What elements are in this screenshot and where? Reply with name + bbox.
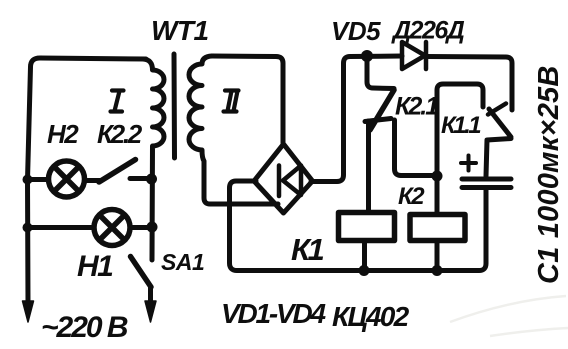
diode VD5 bbox=[402, 42, 425, 69]
bridge diode symbol bbox=[277, 166, 282, 197]
lamp H1 bbox=[94, 210, 130, 246]
contact K2.1 fixed lead bbox=[367, 61, 394, 89]
svg-text:WT1: WT1 bbox=[151, 15, 209, 46]
svg-text:~220 В: ~220 В bbox=[41, 311, 128, 344]
wire: K2.1 right branch to dot bbox=[395, 120, 438, 176]
junction dot K2-rail bbox=[432, 265, 443, 276]
wire: VD5 cathode to K1.1 fixed bbox=[426, 57, 512, 111]
wire: H1 row left segment bbox=[28, 225, 93, 230]
junction dot H1-rail bbox=[23, 223, 33, 233]
wire: left rail and top wire to primary bbox=[28, 58, 147, 303]
svg-text:К2.2: К2.2 bbox=[97, 119, 143, 149]
wire: bridge right corner up to VD5 junction bbox=[311, 56, 402, 182]
capacitor plus sign bbox=[461, 156, 476, 171]
svg-text:К1: К1 bbox=[291, 232, 324, 267]
lamp H2 bbox=[49, 161, 85, 197]
capacitor C1 plates bbox=[462, 179, 511, 188]
svg-text:КЦ402: КЦ402 bbox=[332, 301, 410, 332]
contact K2.1 bar bbox=[365, 119, 391, 122]
label winding II (roman numeral) bbox=[224, 91, 239, 112]
svg-text:Н1: Н1 bbox=[77, 250, 113, 283]
switch SA1 blade bbox=[131, 257, 152, 288]
junction dot H1-stem bbox=[147, 222, 158, 233]
wire: bridge left corner to bottom rail and rail to C1 bottom bbox=[230, 181, 487, 271]
svg-text:К2.1: К2.1 bbox=[395, 93, 438, 121]
wire: H2 row left segment bbox=[28, 177, 48, 182]
junction dot K1-rail bbox=[359, 265, 370, 276]
svg-text:Н2: Н2 bbox=[47, 119, 79, 149]
faint scan smudge bottom right bbox=[450, 296, 568, 336]
mains arrow left bbox=[23, 301, 34, 322]
contact K1.1 tick bbox=[488, 104, 506, 115]
junction dot K2.2-right bbox=[146, 174, 157, 185]
svg-text:SA1: SA1 bbox=[161, 249, 204, 275]
relay coil K2 bbox=[410, 215, 465, 241]
svg-text:К2: К2 bbox=[398, 183, 425, 210]
mains arrow right bbox=[145, 301, 156, 322]
wire: H1 lamp to stem bbox=[132, 225, 152, 230]
relay coil K1 bbox=[339, 213, 395, 241]
wire: H2 lamp to contact bbox=[85, 178, 101, 183]
wire: K2.1 to relay K1 bbox=[366, 121, 371, 212]
label winding I (roman numeral) bbox=[111, 91, 124, 112]
contact K1.1 blade and common bbox=[486, 109, 511, 176]
junction dot VD5 anode bbox=[361, 50, 373, 62]
wire: K2 top lead bbox=[435, 176, 440, 215]
wire: K1 bottom lead bbox=[362, 241, 367, 271]
contact K2.2 blade bbox=[99, 160, 136, 183]
junction dot C1 net bbox=[432, 171, 443, 182]
svg-text:VD1-VD4: VD1-VD4 bbox=[221, 298, 326, 329]
svg-text:VD5: VD5 bbox=[331, 16, 381, 46]
svg-text:С1 1000мк×25В: С1 1000мк×25В bbox=[533, 65, 565, 284]
wire: secondary top rail to bridge top bbox=[212, 56, 283, 143]
wire: dot up to K1.1 left contact bbox=[437, 84, 483, 176]
switch SA1 arrow lead bbox=[148, 287, 153, 302]
contact K2.2 fixed lead bbox=[130, 176, 150, 181]
junction dot H2-rail bbox=[23, 175, 33, 185]
transformer secondary winding WT1-II bbox=[189, 56, 278, 204]
svg-text:К1.1: К1.1 bbox=[441, 112, 481, 139]
transformer core bbox=[172, 54, 178, 158]
bridge rectifier diamond VD1-VD4 bbox=[254, 144, 313, 213]
contact K2.1 blade bbox=[370, 90, 394, 130]
svg-text:Д226Д: Д226Д bbox=[391, 17, 465, 45]
transformer primary winding WT1-I bbox=[143, 59, 164, 260]
wire: K2 bottom lead bbox=[435, 241, 440, 271]
